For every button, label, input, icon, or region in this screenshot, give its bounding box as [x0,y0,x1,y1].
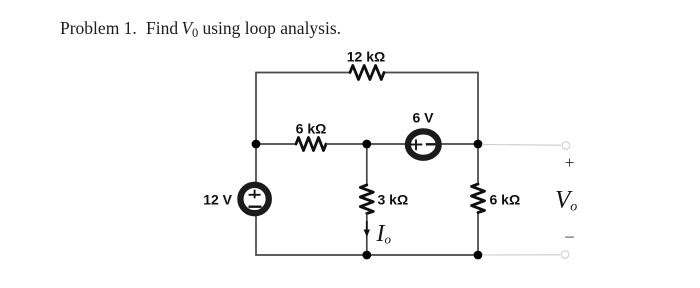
wire: top segment right [384,72,479,74]
wire: bottom horizontal (node D to node E) [255,254,479,256]
svg-text:6 kΩ: 6 kΩ [296,121,327,137]
node: bottom middle junction dot [362,251,371,260]
resistor 3 kOhm (middle vertical) [360,185,373,214]
wire: middle horizontal right (source to node C) [440,143,478,145]
voltage source 6V (circle with + -) [408,131,439,157]
node A junction dot [252,140,261,149]
wire: faint lead to + terminal [482,144,561,147]
wire: middle branch vertical lower [366,214,368,256]
svg-text:6 kΩ: 6 kΩ [490,192,521,208]
svg-text:–: – [564,226,574,245]
wire: middle branch vertical upper (node B to resistor) [366,144,368,185]
node B junction dot [362,140,371,149]
resistor 12 kOhm (top) [350,66,384,80]
svg-text:0: 0 [192,26,198,40]
wire: middle horizontal left (node A to resistor) [256,143,296,145]
voltage source 12V (circle with + -) [240,185,268,213]
node: bottom right junction dot [474,251,483,260]
current arrow I0 [364,221,370,237]
wire: middle horizontal center (resistor to source) [326,143,407,145]
wire: right branch vertical upper (node C corner to resistor) [477,73,479,186]
svg-text:Find: Find [146,18,178,38]
terminal: open circle + [562,142,570,150]
svg-text:using loop analysis.: using loop analysis. [203,18,342,38]
svg-text:3 kΩ: 3 kΩ [378,192,409,208]
resistor 6 kOhm (middle horizontal) [296,138,326,151]
svg-text:12 V: 12 V [203,192,232,208]
wire: left branch vertical (node A to node D) [255,73,257,256]
title: Problem 1. Find V0 using loop analysis. [60,18,341,40]
svg-text:Problem 1.: Problem 1. [60,18,137,38]
resistor 6 kOhm (right vertical) [472,184,485,213]
node C junction dot [474,140,483,149]
wire: top segment left [255,72,350,74]
svg-text:+: + [565,153,575,172]
svg-text:6 V: 6 V [412,110,434,126]
terminal: open circle - [561,251,569,259]
svg-text:12 kΩ: 12 kΩ [347,49,385,65]
wire: right branch vertical lower [477,214,479,256]
wire: faint lead to - terminal [482,254,560,256]
